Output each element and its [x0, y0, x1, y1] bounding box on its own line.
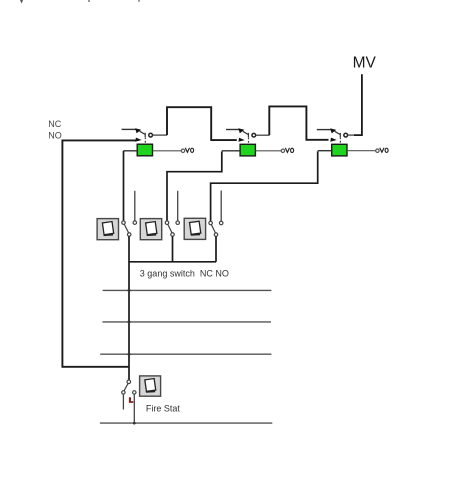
switch S2 NC terminal: [165, 221, 169, 225]
wire coil K2 to switch S2: [167, 152, 222, 221]
relay K2 pivot: [247, 133, 249, 137]
wire left rail down and to fire stat: [62, 140, 129, 367]
switch S1 NO stub: [134, 191, 136, 221]
switch S3 NO stub: [220, 191, 222, 222]
relay K2 coil: [240, 144, 255, 156]
switch S3 common terminal: [214, 233, 218, 237]
clipped text fragment top-right: [138, 0, 140, 2]
relay K2 armature: [243, 131, 248, 134]
relay K3 coil right lead: [347, 150, 376, 152]
relay K1 V0 terminal: [181, 149, 184, 152]
wire open line 2: [102, 321, 271, 323]
relay K2 V0 terminal: [281, 149, 284, 152]
relay K3 common pole: [344, 133, 348, 137]
relay K2 common pole: [252, 133, 256, 137]
switch S1 NO terminal: [133, 221, 137, 225]
relay K3 pivot: [339, 133, 341, 137]
relay K2 pole lead: [256, 134, 270, 136]
relay K3 coil: [332, 144, 347, 156]
relay K3 armature: [335, 131, 340, 134]
wire open line 1: [103, 289, 272, 291]
relay K1 NO contact arrow: [135, 138, 141, 142]
switch S1 common terminal: [127, 233, 131, 237]
wire common bus: [129, 261, 216, 263]
wire coil K3 to switch S3: [211, 151, 318, 221]
switch S2 blade: [168, 224, 172, 232]
switch S3 NO terminal: [219, 221, 223, 225]
relay K1 NC contact arrow: [135, 128, 141, 133]
junction line 3: [128, 353, 131, 356]
clipped text fragment top-left: [20, 0, 23, 4]
relay K3 coil link dashed: [339, 137, 341, 144]
relay K2 NO contact arrow: [238, 138, 244, 142]
fire stat blade: [124, 383, 128, 390]
fire stat right lead down: [133, 394, 135, 423]
wire NO rail from left: [62, 139, 136, 141]
wire K3 pole to MV: [354, 74, 362, 135]
switch S1 NC terminal: [122, 221, 126, 225]
relay K1 pivot: [144, 133, 146, 137]
relay K1 common pole: [149, 133, 153, 137]
switch S1 rocker icon: [97, 219, 118, 240]
svg-text:NO: NO: [48, 130, 62, 140]
wire open bottom line: [100, 422, 272, 424]
fire stat left stub: [122, 394, 124, 409]
wire S1 common down to fire stat: [128, 236, 130, 380]
switch S1 blade: [124, 224, 128, 233]
relay K1 armature: [140, 131, 145, 134]
relay K3 pole lead: [348, 134, 355, 136]
relay K1 coil left lead: [124, 150, 138, 152]
switch S2 NO stub: [177, 191, 179, 221]
relay K2 coil right lead: [255, 150, 281, 152]
junction bottom line: [133, 422, 136, 425]
switch S3 NC terminal: [209, 221, 213, 225]
junction line 1: [128, 289, 131, 292]
wire bridge K2 pole to K3 NO: [269, 106, 328, 139]
wire S3 common down: [215, 236, 217, 261]
relay K1 V0 label: [186, 148, 190, 152]
clipped text fragment top-mid: [88, 0, 90, 2]
relay K2 NC contact arrow: [238, 128, 244, 133]
wire coil K1 to switch S1: [123, 151, 125, 221]
relay K1 coil link dashed: [144, 137, 146, 144]
fire stat red indicator: [129, 397, 133, 403]
fire stat rocker icon: [140, 376, 161, 396]
switch S3 blade: [211, 225, 215, 233]
svg-text:3 gang switch NC NO: 3 gang switch NC NO: [140, 268, 229, 278]
switch S2 rocker icon: [140, 219, 161, 240]
svg-text:MV: MV: [353, 55, 377, 72]
relay K1 coil right lead: [153, 150, 182, 152]
fire stat common terminal: [127, 380, 131, 384]
relay K1 coil: [137, 144, 152, 156]
relay K2 coil left lead: [222, 150, 240, 152]
relay K3 NO contact arrow: [330, 138, 336, 142]
relay K3 coil left lead: [318, 150, 332, 152]
wire S2 common down: [172, 236, 174, 262]
relay K3 V0 terminal: [376, 149, 379, 152]
switch S3 rocker icon: [184, 218, 205, 239]
relay K3 V0 label: [380, 148, 384, 152]
svg-text:NC: NC: [48, 119, 61, 129]
relay K1 NC stub: [122, 128, 137, 130]
fire stat right terminal: [133, 391, 136, 394]
switch S2 NO terminal: [176, 221, 180, 225]
relay K2 V0 label: [286, 148, 290, 152]
fire stat left terminal: [122, 391, 125, 394]
svg-text:Fire Stat: Fire Stat: [146, 404, 181, 414]
relay K2 coil link dashed: [248, 137, 250, 144]
relay K2 NC stub: [226, 129, 240, 131]
relay K3 NC contact arrow: [330, 128, 336, 133]
relay K1 pole lead: [153, 134, 168, 136]
relay K3 NC stub: [317, 129, 332, 131]
switch S2 common terminal: [171, 233, 175, 237]
junction line 2: [128, 320, 131, 323]
wire bridge K1 pole to K2 NO: [167, 107, 237, 140]
wire open line 3: [100, 353, 271, 355]
